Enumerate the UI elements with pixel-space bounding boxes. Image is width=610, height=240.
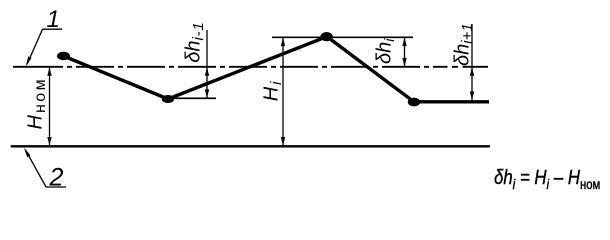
svg-text:2: 2	[49, 163, 64, 191]
svg-text:1: 1	[47, 6, 60, 33]
svg-text:Hi: Hi	[261, 81, 286, 101]
svg-text:δhi: δhi	[374, 38, 398, 64]
svg-text:δhi+1: δhi+1	[452, 23, 477, 66]
svg-text:Hном: Hном	[25, 77, 50, 130]
svg-text:δhi-1: δhi-1	[183, 21, 208, 62]
svg-text:δhi = Hi – Hном: δhi = Hi – Hном	[494, 165, 600, 192]
